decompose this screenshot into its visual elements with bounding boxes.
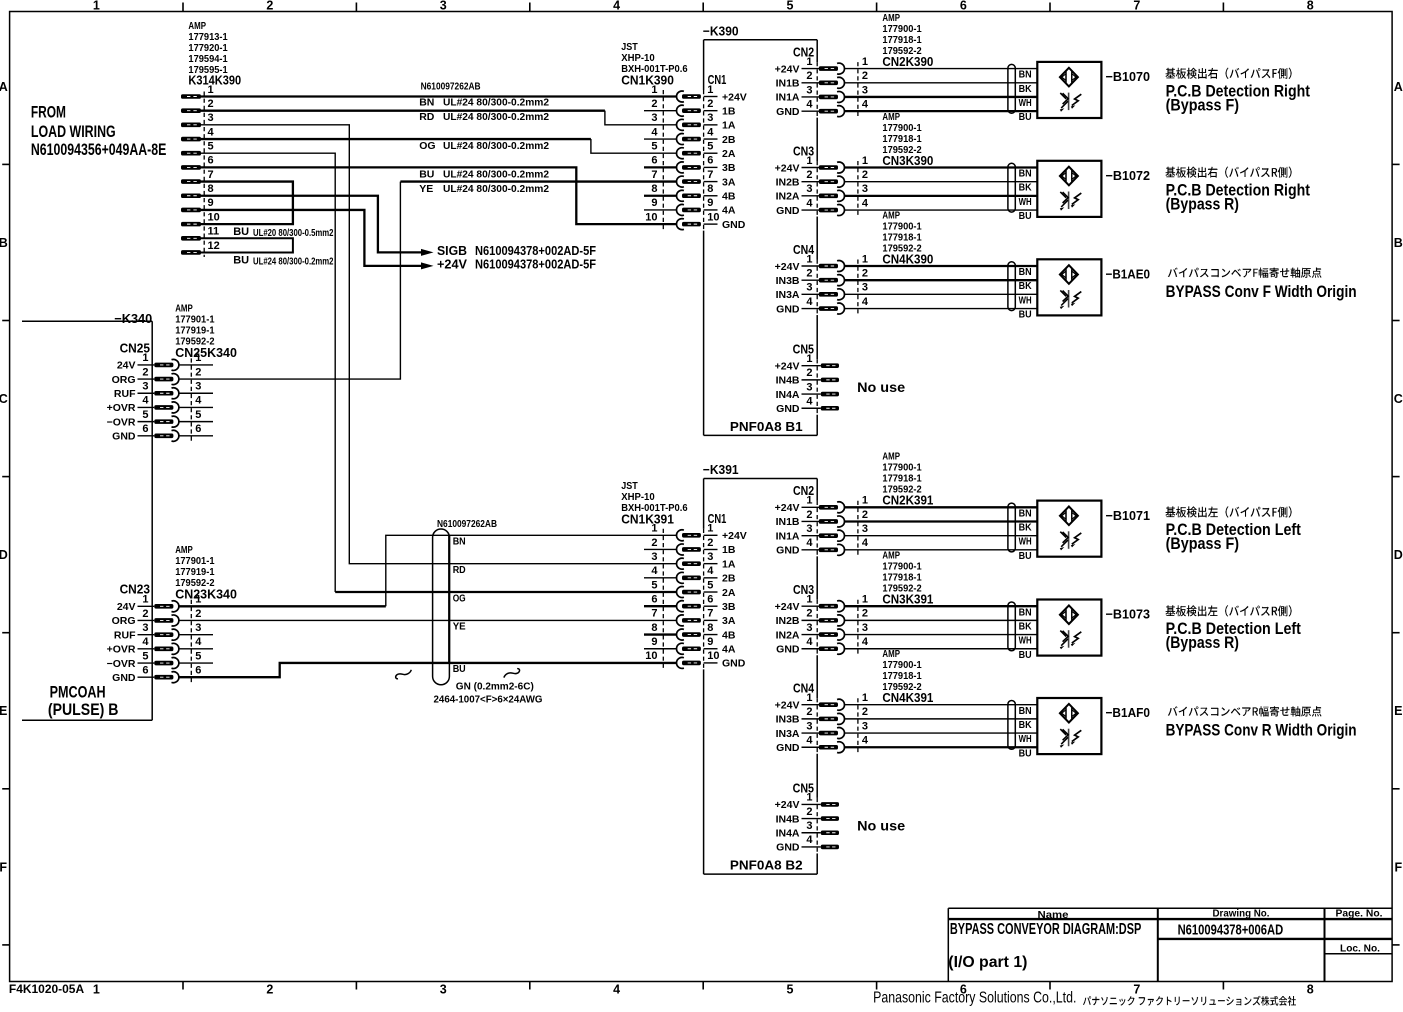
svg-text:1: 1 — [93, 0, 100, 13]
svg-text:GND: GND — [112, 672, 136, 684]
svg-text:8: 8 — [707, 622, 713, 634]
svg-text:CN1K390: CN1K390 — [621, 73, 674, 88]
svg-text:8: 8 — [1307, 0, 1314, 13]
svg-text:E: E — [0, 704, 7, 718]
svg-text:4: 4 — [195, 395, 202, 407]
cable N610097262AB sheath (lower) — [396, 518, 543, 706]
connector CN5 K391 (no use) — [775, 780, 906, 853]
svg-text:AMP: AMP — [882, 649, 900, 660]
svg-text:2: 2 — [806, 509, 812, 521]
sensor B1AE0 photoelectric — [845, 259, 1150, 320]
svg-text:D: D — [1394, 548, 1403, 562]
svg-text:24V: 24V — [117, 360, 136, 372]
svg-text:5: 5 — [787, 0, 794, 13]
svg-text:WH: WH — [1019, 635, 1032, 647]
connector CN5 K390 (no use) — [775, 342, 906, 415]
module K390 PNF0A8 B1 — [703, 24, 817, 436]
svg-text:3: 3 — [195, 381, 201, 393]
svg-text:2: 2 — [806, 806, 812, 818]
svg-text:GND: GND — [776, 742, 800, 754]
svg-text:IN2A: IN2A — [776, 191, 800, 203]
svg-text:IN3A: IN3A — [776, 728, 800, 740]
svg-text:177919-1: 177919-1 — [175, 326, 215, 337]
svg-text:−K340: −K340 — [114, 311, 152, 326]
svg-text:2: 2 — [806, 367, 812, 379]
svg-text:6: 6 — [651, 594, 657, 606]
svg-text:177920-1: 177920-1 — [188, 43, 228, 54]
svg-text:N610094378+002AD-5F: N610094378+002AD-5F — [475, 244, 596, 258]
svg-text:AMP: AMP — [175, 545, 193, 556]
connector CN3K390 (CN3 of K390) — [775, 112, 934, 217]
svg-text:1A: 1A — [722, 120, 736, 132]
svg-text:4B: 4B — [722, 629, 736, 641]
svg-text:4: 4 — [142, 636, 149, 648]
connector CN3K391 (CN3 of K391) — [775, 551, 934, 656]
svg-text:UL#24 80/300-0.2mm2: UL#24 80/300-0.2mm2 — [253, 256, 334, 267]
label company name — [873, 990, 1296, 1007]
svg-text:9: 9 — [208, 197, 214, 209]
svg-text:1: 1 — [806, 692, 812, 704]
svg-text:2: 2 — [651, 98, 657, 110]
svg-text:AMP: AMP — [882, 210, 900, 221]
svg-text:177919-1: 177919-1 — [175, 567, 215, 578]
svg-text:BU: BU — [453, 663, 466, 675]
svg-text:1: 1 — [806, 495, 812, 507]
svg-text:ORG: ORG — [112, 374, 136, 386]
svg-text:Drawing No.: Drawing No. — [1213, 908, 1270, 920]
svg-text:9: 9 — [707, 636, 713, 648]
node SIGB N610094378+002AD-5F — [421, 244, 596, 258]
wire OG2 K314K390-5 to CN1K391-5 — [201, 153, 335, 592]
svg-text:SIGB: SIGB — [437, 244, 467, 258]
svg-text:UL#24 80/300-0.2mm2: UL#24 80/300-0.2mm2 — [443, 111, 549, 123]
connector K314K390 (AMP 12-pin) — [181, 21, 241, 257]
svg-text:−K391: −K391 — [703, 462, 739, 477]
svg-text:N610094378+002AD-5F: N610094378+002AD-5F — [475, 258, 596, 272]
svg-text:F4K1020-05A: F4K1020-05A — [9, 984, 84, 996]
svg-text:WH: WH — [1019, 196, 1032, 208]
svg-text:2: 2 — [208, 98, 214, 110]
svg-text:1: 1 — [142, 352, 148, 364]
svg-text:3: 3 — [195, 622, 201, 634]
svg-text:2: 2 — [806, 169, 812, 181]
svg-text:8: 8 — [651, 622, 657, 634]
svg-text:7: 7 — [651, 169, 657, 181]
svg-text:A: A — [1394, 80, 1403, 94]
svg-text:2A: 2A — [722, 148, 736, 160]
svg-text:BK: BK — [1019, 620, 1032, 632]
svg-text:BN: BN — [1019, 69, 1032, 81]
svg-text:5: 5 — [195, 409, 201, 421]
svg-text:6: 6 — [707, 594, 713, 606]
svg-text:C: C — [0, 392, 8, 406]
wire CN23 stubs pins 3,4,5 — [179, 635, 213, 663]
svg-text:Loc. No.: Loc. No. — [1340, 943, 1380, 955]
svg-text:BYPASS CONVEYOR DIAGRAM:DSP: BYPASS CONVEYOR DIAGRAM:DSP — [950, 921, 1142, 938]
svg-text:3: 3 — [862, 523, 868, 535]
svg-text:GND: GND — [722, 658, 746, 670]
svg-text:3: 3 — [862, 84, 868, 96]
svg-text:4A: 4A — [722, 205, 736, 217]
svg-text:177900-1: 177900-1 — [882, 221, 922, 232]
svg-text:2: 2 — [862, 169, 868, 181]
svg-text:BN: BN — [453, 536, 466, 548]
svg-text:177901-1: 177901-1 — [175, 556, 215, 567]
svg-text:9: 9 — [651, 197, 657, 209]
svg-text:C: C — [1394, 392, 1403, 406]
svg-text:1A: 1A — [722, 558, 736, 570]
svg-text:CN1: CN1 — [708, 511, 727, 526]
svg-text:+24V: +24V — [775, 799, 800, 811]
svg-text:3A: 3A — [722, 615, 736, 627]
svg-text:UL#24 80/300-0.2mm2: UL#24 80/300-0.2mm2 — [443, 168, 549, 180]
svg-text:3: 3 — [440, 0, 447, 13]
sensor B1072 photoelectric — [845, 161, 1150, 222]
svg-text:5: 5 — [195, 650, 201, 662]
svg-text:1: 1 — [93, 982, 100, 996]
svg-text:IN4B: IN4B — [776, 813, 800, 825]
svg-text:GN (0.2mm2-6C): GN (0.2mm2-6C) — [456, 681, 534, 693]
svg-text:3: 3 — [806, 84, 812, 96]
svg-text:4: 4 — [862, 735, 869, 747]
wire K314K390-9 to +24V feed — [201, 210, 421, 266]
svg-text:7: 7 — [651, 608, 657, 620]
svg-text:24V: 24V — [117, 601, 136, 613]
svg-text:+OVR: +OVR — [107, 644, 136, 656]
svg-text:JST: JST — [621, 42, 638, 53]
module K340 PMCOAH (PULSE) B — [22, 311, 152, 720]
svg-text:2: 2 — [266, 0, 273, 13]
svg-text:BU: BU — [233, 226, 249, 238]
svg-text:177900-1: 177900-1 — [882, 562, 922, 573]
svg-text:177900-1: 177900-1 — [882, 660, 922, 671]
connector CN4K391 (CN4 of K391) — [775, 649, 934, 754]
connector CN1K390 (JST XHP-10) — [621, 42, 747, 231]
svg-text:PNF0A8 B1: PNF0A8 B1 — [730, 419, 803, 434]
svg-text:BU: BU — [1019, 111, 1032, 123]
svg-text:177918-1: 177918-1 — [882, 134, 922, 145]
svg-text:BN: BN — [1019, 606, 1032, 618]
svg-text:CN2K391: CN2K391 — [882, 493, 933, 508]
svg-text:BYPASS Conv R Width Origin: BYPASS Conv R Width Origin — [1166, 721, 1357, 739]
svg-text:No use: No use — [857, 380, 906, 395]
svg-text:GND: GND — [722, 219, 746, 231]
svg-text:6: 6 — [142, 665, 148, 677]
svg-text:177918-1: 177918-1 — [882, 232, 922, 243]
svg-text:2: 2 — [707, 98, 713, 110]
svg-text:5: 5 — [651, 141, 657, 153]
svg-text:E: E — [1394, 704, 1402, 718]
node +24V N610094378+002AD-5F — [421, 258, 596, 272]
svg-text:AMP: AMP — [188, 21, 206, 32]
svg-text:4: 4 — [806, 396, 813, 408]
svg-text:5: 5 — [142, 409, 148, 421]
svg-text:4B: 4B — [722, 191, 736, 203]
svg-text:+24V: +24V — [722, 530, 747, 542]
svg-text:3: 3 — [806, 381, 812, 393]
svg-text:−B1072: −B1072 — [1106, 168, 1151, 183]
svg-text:+24V: +24V — [775, 261, 800, 273]
svg-text:4: 4 — [806, 537, 813, 549]
svg-text:LOAD WIRING: LOAD WIRING — [31, 123, 116, 141]
svg-text:1: 1 — [806, 353, 812, 365]
svg-text:4: 4 — [707, 126, 714, 138]
svg-text:4: 4 — [806, 834, 813, 846]
svg-text:N610097262AB: N610097262AB — [421, 81, 481, 93]
svg-text:+24V: +24V — [775, 601, 800, 613]
svg-text:2: 2 — [862, 706, 868, 718]
svg-text:K314K390: K314K390 — [188, 73, 241, 88]
wire loop K314K390-7 to K314K390-10 — [201, 182, 293, 225]
svg-text:2B: 2B — [722, 134, 736, 146]
svg-text:3: 3 — [862, 622, 868, 634]
svg-text:2B: 2B — [722, 573, 736, 585]
svg-text:6: 6 — [960, 0, 967, 13]
wire loop K314K390-11 to K314K390-12 — [201, 238, 293, 252]
wire K314K390-6 to CN1K390-10 GND — [201, 167, 677, 224]
svg-text:CN4K391: CN4K391 — [882, 690, 933, 705]
svg-text:RUF: RUF — [114, 388, 136, 400]
svg-text:7: 7 — [1133, 0, 1140, 13]
sensor B1071 photoelectric — [845, 501, 1150, 562]
svg-text:YE: YE — [453, 621, 466, 633]
svg-text:2: 2 — [651, 537, 657, 549]
svg-text:4: 4 — [806, 636, 813, 648]
svg-text:2: 2 — [142, 608, 148, 620]
svg-text:D: D — [0, 548, 8, 562]
svg-text:2464-1007<F>6×24AWG: 2464-1007<F>6×24AWG — [434, 694, 543, 706]
svg-text:3: 3 — [142, 381, 148, 393]
svg-text:2: 2 — [195, 366, 201, 378]
svg-text:WH: WH — [1019, 294, 1032, 306]
svg-text:3: 3 — [806, 183, 812, 195]
svg-text:3B: 3B — [722, 601, 736, 613]
label B1071 description — [1166, 506, 1302, 553]
svg-text:CN23K340: CN23K340 — [175, 586, 237, 601]
connector CN23K340 — [107, 545, 237, 684]
svg-text:4: 4 — [613, 0, 620, 13]
wire CN25 stubs pins 1,3,4,5,6 — [179, 365, 213, 436]
connector CN4K390 (CN4 of K390) — [775, 210, 934, 315]
svg-text:CN25K340: CN25K340 — [175, 345, 237, 360]
svg-text:1: 1 — [862, 155, 868, 167]
svg-text:AMP: AMP — [882, 13, 900, 24]
svg-text:5: 5 — [651, 579, 657, 591]
svg-text:(Bypass F): (Bypass F) — [1166, 96, 1239, 114]
svg-text:−B1070: −B1070 — [1106, 69, 1151, 84]
svg-text:7: 7 — [208, 169, 214, 181]
wire ORG CN25-2 to CN1K390-7 (BU) — [179, 182, 400, 379]
svg-text:JST: JST — [621, 481, 638, 492]
svg-text:IN3B: IN3B — [776, 275, 800, 287]
svg-text:GND: GND — [112, 431, 136, 443]
module K391 PNF0A8 B2 — [703, 462, 817, 874]
svg-text:6: 6 — [142, 423, 148, 435]
svg-text:+24V: +24V — [437, 258, 468, 272]
svg-text:2: 2 — [806, 706, 812, 718]
svg-text:BN: BN — [1019, 507, 1032, 519]
svg-text:4: 4 — [806, 197, 813, 209]
svg-text:N610097262AB: N610097262AB — [437, 518, 497, 530]
sensor B1073 photoelectric — [845, 600, 1150, 661]
svg-text:BU: BU — [1019, 550, 1032, 562]
svg-text:−B1073: −B1073 — [1106, 607, 1151, 622]
svg-text:6: 6 — [707, 155, 713, 167]
wire K314K390-8 to SIGB feed — [201, 196, 421, 253]
svg-text:10: 10 — [208, 211, 220, 223]
svg-text:AMP: AMP — [882, 112, 900, 123]
svg-text:1: 1 — [862, 56, 868, 68]
svg-text:6: 6 — [195, 665, 201, 677]
svg-text:A: A — [0, 80, 8, 94]
svg-text:8: 8 — [208, 183, 214, 195]
svg-text:+24V: +24V — [775, 502, 800, 514]
svg-text:−B1071: −B1071 — [1106, 508, 1151, 523]
wire OG K314K390-4 to CN1K390-5 — [201, 138, 591, 140]
svg-text:1: 1 — [862, 594, 868, 606]
svg-text:1: 1 — [142, 594, 148, 606]
svg-text:AMP: AMP — [882, 551, 900, 562]
svg-text:1: 1 — [195, 352, 201, 364]
svg-text:177918-1: 177918-1 — [882, 474, 922, 485]
svg-text:IN1B: IN1B — [776, 516, 800, 528]
svg-text:6: 6 — [651, 155, 657, 167]
svg-text:1B: 1B — [722, 544, 736, 556]
svg-text:GND: GND — [776, 545, 800, 557]
connector CN2K391 (CN2 of K391) — [775, 452, 934, 557]
svg-text:4: 4 — [806, 98, 813, 110]
svg-text:3: 3 — [862, 282, 868, 294]
svg-text:(Bypass R): (Bypass R) — [1166, 195, 1239, 213]
svg-text:2: 2 — [862, 509, 868, 521]
svg-text:3: 3 — [707, 551, 713, 563]
svg-text:3: 3 — [208, 112, 214, 124]
sensor B1070 photoelectric — [845, 62, 1150, 123]
svg-text:IN2A: IN2A — [776, 629, 800, 641]
svg-text:GND: GND — [776, 303, 800, 315]
svg-text:(Bypass F): (Bypass F) — [1166, 535, 1239, 553]
svg-text:CN1: CN1 — [708, 72, 727, 87]
svg-text:PMCOAH: PMCOAH — [50, 683, 106, 701]
svg-text:IN4A: IN4A — [776, 828, 800, 840]
svg-text:(I/O part 1): (I/O part 1) — [948, 954, 1027, 971]
svg-text:F: F — [0, 860, 7, 874]
svg-text:IN1A: IN1A — [776, 530, 800, 542]
svg-text:−B1AE0: −B1AE0 — [1106, 267, 1151, 282]
svg-text:3: 3 — [862, 720, 868, 732]
svg-text:CN3K391: CN3K391 — [882, 592, 933, 607]
wire RD K314K390-3 to CN1K391-3 — [201, 125, 677, 564]
svg-text:8: 8 — [1307, 982, 1314, 996]
svg-text:IN4B: IN4B — [776, 375, 800, 387]
svg-text:9: 9 — [651, 636, 657, 648]
svg-text:1: 1 — [651, 84, 657, 96]
svg-text:1: 1 — [208, 84, 214, 96]
svg-text:3: 3 — [806, 523, 812, 535]
svg-text:3: 3 — [862, 183, 868, 195]
svg-text:1: 1 — [806, 594, 812, 606]
svg-text:FROM: FROM — [31, 104, 66, 122]
svg-text:BN: BN — [1019, 266, 1032, 278]
svg-text:UL#20 80/300-0.5mm2: UL#20 80/300-0.5mm2 — [253, 228, 334, 239]
svg-text:BK: BK — [1019, 182, 1032, 194]
svg-text:CN3K390: CN3K390 — [882, 153, 933, 168]
svg-text:4: 4 — [862, 296, 869, 308]
svg-text:+24V: +24V — [775, 63, 800, 75]
svg-text:1: 1 — [195, 594, 201, 606]
svg-text:10: 10 — [645, 650, 657, 662]
svg-text:BK: BK — [1019, 522, 1032, 534]
svg-text:BN: BN — [1019, 705, 1032, 717]
svg-text:12: 12 — [208, 240, 220, 252]
wire K314K390-1 to CN1K390-1 +24V — [201, 95, 677, 97]
svg-text:UL#24 80/300-0.2mm2: UL#24 80/300-0.2mm2 — [443, 97, 549, 109]
svg-text:Page. No.: Page. No. — [1336, 908, 1383, 920]
svg-text:BU: BU — [233, 255, 249, 267]
svg-text:1: 1 — [806, 56, 812, 68]
svg-text:BN: BN — [419, 97, 434, 109]
svg-text:4: 4 — [862, 98, 869, 110]
svg-text:WH: WH — [1019, 733, 1032, 745]
svg-text:+24V: +24V — [775, 360, 800, 372]
svg-text:(PULSE) B: (PULSE) B — [48, 701, 119, 719]
svg-text:4: 4 — [142, 395, 149, 407]
svg-text:4: 4 — [651, 565, 658, 577]
svg-text:AMP: AMP — [175, 304, 193, 315]
wire ORG CN23-2 to CN1K391-7 (YE) — [179, 619, 677, 621]
svg-text:1B: 1B — [722, 105, 736, 117]
wire GND CN23-6 to CN1K391-10 (BU) — [179, 663, 677, 677]
svg-text:5: 5 — [787, 982, 794, 996]
svg-text:1: 1 — [806, 792, 812, 804]
svg-text:BYPASS Conv F Width Origin: BYPASS Conv F Width Origin — [1166, 283, 1357, 301]
svg-text:3A: 3A — [722, 176, 736, 188]
svg-text:−K390: −K390 — [703, 24, 739, 39]
svg-text:2: 2 — [862, 267, 868, 279]
svg-text:+24V: +24V — [722, 91, 747, 103]
svg-text:XHP-10: XHP-10 — [621, 53, 655, 64]
svg-text:3: 3 — [651, 112, 657, 124]
svg-text:4: 4 — [862, 537, 869, 549]
svg-text:GND: GND — [776, 643, 800, 655]
svg-text:4: 4 — [707, 565, 714, 577]
svg-text:1: 1 — [862, 253, 868, 265]
connector CN25K340 — [107, 304, 237, 443]
svg-text:BK: BK — [1019, 719, 1032, 731]
label B1073 description — [1166, 605, 1302, 652]
connector CN1K391 (JST XHP-10) — [621, 481, 747, 670]
svg-text:WH: WH — [1019, 97, 1032, 109]
svg-text:6: 6 — [195, 423, 201, 435]
svg-text:CN4K390: CN4K390 — [882, 251, 933, 266]
svg-text:4: 4 — [806, 735, 813, 747]
svg-text:3: 3 — [651, 551, 657, 563]
svg-text:7: 7 — [707, 608, 713, 620]
svg-text:4: 4 — [862, 636, 869, 648]
svg-text:IN4A: IN4A — [776, 389, 800, 401]
svg-text:4: 4 — [806, 296, 813, 308]
svg-text:3: 3 — [806, 282, 812, 294]
svg-text:2: 2 — [862, 608, 868, 620]
svg-text:BU: BU — [1019, 210, 1032, 222]
svg-text:BU: BU — [1019, 747, 1032, 759]
svg-text:IN3B: IN3B — [776, 714, 800, 726]
sensor B1AF0 photoelectric — [845, 698, 1150, 759]
svg-text:4: 4 — [613, 982, 620, 996]
svg-text:IN2B: IN2B — [776, 176, 800, 188]
svg-text:BU: BU — [1019, 649, 1032, 661]
svg-text:4: 4 — [208, 126, 215, 138]
